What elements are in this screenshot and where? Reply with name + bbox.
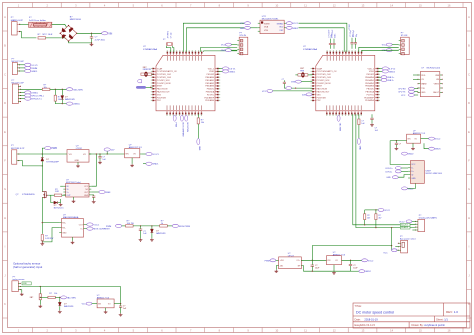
capacitor C6 below U7 right (370, 114, 379, 132)
wire U5 to ST-LIN1 pin (201, 48, 238, 52)
net flag below R9 (197, 139, 200, 145)
svg-text:PC1/TIM1/UART1_CK: PC1/TIM1/UART1_CK (157, 70, 178, 73)
svg-text:PD3/AIN4: PD3/AIN4 (205, 99, 215, 102)
capacitor C10 tacho out (119, 304, 127, 314)
junction motor pin2 (42, 165, 43, 166)
wire NTC to bridge ac2 (46, 38, 67, 39)
svg-text:PE5/SPI: PE5/SPI (366, 74, 374, 76)
svg-text:RS-: RS- (62, 228, 66, 230)
svg-text:E: E (4, 130, 6, 134)
svg-text:VCC: VCC (221, 45, 226, 47)
svg-text:GND: GND (240, 28, 245, 30)
svg-text:C: C (468, 72, 470, 76)
svg-text:VSS1: VSS1 (369, 71, 375, 73)
svg-text:REV: 1.0: REV: 1.0 (446, 310, 458, 314)
junction aux wire (391, 245, 392, 246)
svg-text:GND: GND (411, 178, 416, 180)
ground AMS aux (333, 265, 335, 272)
svg-text:BAV21WS: BAV21WS (156, 232, 166, 235)
wire pullups to VCC flag (376, 209, 378, 211)
ground filter cap (139, 238, 143, 241)
svg-text:VL: VL (67, 189, 69, 191)
svg-text:VDD_1: VDD_1 (208, 68, 215, 70)
svg-text:GND2: GND2 (408, 154, 415, 156)
svg-text:C?: C? (282, 79, 284, 81)
driver bypass cap C3 (91, 195, 95, 200)
wire U5 to ST-LIN1 pin2 (204, 51, 238, 52)
svg-text:PB2/AIN2: PB2/AIN2 (365, 82, 375, 85)
svg-text:10k: 10k (201, 122, 204, 124)
port flag at U5 left (137, 80, 141, 83)
junction at C1 bottom (91, 42, 92, 43)
wire display gnd pin (412, 229, 415, 231)
svg-text:PC2/TIM1_CH2: PC2/TIM1_CH2 (157, 74, 172, 76)
title block (353, 303, 470, 328)
wire bridge plus to VIN (77, 32, 102, 34)
ground AMS tacho (105, 308, 107, 311)
mcu U5 left and right pins (151, 67, 220, 102)
svg-text:FER: FER (300, 70, 304, 72)
svg-text:SWIM: SWIM (31, 68, 37, 70)
net flag MOS PWM (172, 224, 178, 227)
svg-text:PB5/SDA: PB5/SDA (366, 91, 375, 94)
net flag VCC aux (362, 259, 368, 262)
junction aux out cap (350, 260, 351, 261)
net flag VCC2 boot right (286, 22, 292, 25)
svg-text:PC5/SPI_SCK: PC5/SPI_SCK (317, 80, 331, 82)
capacitor C5 at U7 left (282, 79, 286, 88)
svg-text:ST-LIN: ST-LIN (239, 35, 246, 37)
svg-text:VCC: VCC (383, 252, 388, 254)
net flag GND main (146, 162, 152, 165)
wire AMS tacho out (114, 303, 121, 305)
net flags below U5 pin rows 2-3 (180, 115, 188, 137)
junction driver 12V feed (96, 153, 97, 154)
svg-text:10k: 10k (54, 293, 57, 295)
clamp diode D5 BAV21WS (151, 226, 167, 239)
svg-text:TXD: TXD (421, 88, 425, 90)
net flag TAC-SEN input (67, 88, 73, 91)
svg-text:MICRO USB 5S.B: MICRO USB 5S.B (426, 173, 443, 175)
junction filter cap (140, 225, 141, 226)
net flag GND usb top (402, 152, 408, 155)
junction tacho signal (40, 297, 41, 298)
svg-text:MOS PWM: MOS PWM (186, 123, 188, 133)
svg-text:GND: GND (23, 283, 28, 285)
capacitor C9 aux out (349, 260, 359, 271)
svg-text:GND1: GND1 (229, 71, 236, 73)
svg-text:C: C (4, 72, 6, 76)
svg-text:GND: GND (359, 146, 361, 151)
mosfet Q1 STW80NF55 (16, 192, 49, 199)
svg-text:STM8AF52AA: STM8AF52AA (143, 48, 158, 51)
ground tacho cap (119, 313, 123, 316)
wire lin cs stub (413, 78, 418, 80)
resistor R8 1k (160, 221, 168, 227)
svg-text:PD0/TIM3: PD0/TIM3 (157, 97, 167, 99)
svg-text:USB D+: USB D+ (387, 77, 395, 79)
net flag GND control (67, 102, 73, 105)
svg-text:GND2: GND2 (292, 28, 299, 30)
svg-text:X?: X? (163, 39, 165, 41)
svg-text:VCC2: VCC2 (368, 260, 374, 262)
svg-text:VCAP: VCAP (157, 67, 163, 70)
junction sda tap (391, 227, 392, 228)
svg-text:Sheet: 1/1: Sheet: 1/1 (436, 317, 448, 321)
net flag at U7 left row (286, 87, 292, 90)
regulator U11 AMS1117-3.3 aux (327, 252, 346, 265)
svg-text:VCC: VCC (82, 304, 87, 306)
svg-text:4k7: 4k7 (378, 218, 381, 220)
net flag USB D+ at U7 right (378, 76, 381, 78)
net flag VCC pullups (378, 208, 384, 211)
svg-text:TAC-SEN: TAC-SEN (73, 88, 83, 91)
svg-text:10R: 10R (55, 191, 59, 193)
svg-text:WAKE: WAKE (421, 83, 427, 86)
wire R7 to R8 (133, 225, 160, 227)
svg-text:0.1R 3W: 0.1R 3W (45, 238, 53, 240)
ferrite bead FB2 at U7 left (295, 68, 312, 77)
decoupling caps above U7 (328, 29, 336, 49)
svg-text:3.3 V1: 3.3 V1 (31, 65, 38, 67)
svg-text:GND: GND (62, 233, 67, 235)
svg-text:E: E (468, 130, 470, 134)
wire VIN rail down to mosfet (41, 154, 43, 157)
connector P2 MCU SWIM (12, 58, 25, 74)
svg-text:NRST: NRST (157, 86, 163, 88)
svg-text:MOS CURRENT: MOS CURRENT (93, 229, 110, 231)
svg-text:A: A (468, 15, 470, 19)
svg-text:PB1/AIN1: PB1/AIN1 (365, 79, 375, 82)
wire I2C SDA from U7 down (356, 114, 401, 227)
gate zener D4 BZT52C15 (51, 195, 65, 209)
svg-text:FB?: FB? (30, 297, 33, 299)
svg-text:BZT52C15: BZT52C15 (54, 208, 65, 210)
svg-text:PWR: PWR (51, 147, 57, 150)
wire sense rs- (42, 228, 59, 242)
mcu U7 top and bottom pins (326, 50, 362, 116)
net flag PWR (45, 147, 51, 150)
wire power select vertical (392, 228, 399, 251)
junction tacho divider (55, 89, 56, 90)
wire mains pin2 to NTC (20, 32, 37, 38)
svg-text:K: K (4, 302, 6, 306)
svg-text:VCC: VCC (262, 91, 267, 93)
regulator U1 7812 wire from rail (42, 153, 64, 155)
wire U7 to ST-LIN2 (362, 50, 399, 52)
svg-text:PC2/TIM1_CH2: PC2/TIM1_CH2 (317, 74, 332, 76)
wire boot left gnd stub (250, 27, 257, 29)
mcu U5 top and bottom pins (166, 50, 202, 116)
svg-text:4k7: 4k7 (367, 218, 370, 220)
jumper block U6 MCU-BOOT-SEL (258, 16, 287, 34)
connector P9 tacho sensor (12, 277, 25, 292)
svg-text:BAV21WS: BAV21WS (64, 305, 74, 308)
svg-text:PC3/TIM1_CH3: PC3/TIM1_CH3 (157, 77, 172, 79)
wire U5 swim to boot header row A (183, 23, 244, 52)
svg-text:GND2: GND2 (389, 71, 396, 73)
ground below C1 (90, 43, 94, 46)
junction rs+ (42, 222, 43, 223)
net flag row pin3 (20, 91, 24, 93)
svg-text:X? 8MHz: X? 8MHz (167, 31, 169, 38)
svg-text:VO: VO (83, 154, 86, 156)
ground opamp (275, 266, 277, 270)
wire 7812 gnd (77, 162, 79, 165)
svg-text:A: A (4, 15, 6, 19)
junction motor pin1 (42, 153, 43, 154)
svg-text:MOS CURRENT: MOS CURRENT (182, 123, 184, 138)
net flag VBUS usb (429, 147, 435, 150)
regulator U9 AMS1117-3.3 usb (407, 130, 426, 143)
svg-text:GND: GND (421, 92, 426, 94)
mcu U7 left and right pins (311, 67, 380, 102)
bus label at U5 left (136, 86, 152, 88)
wire PWR to rail (42, 148, 44, 154)
svg-text:3.3 V1: 3.3 V1 (152, 154, 159, 156)
wire swim pin3 (19, 70, 24, 72)
svg-text:PC6/SPI_MOSI: PC6/SPI_MOSI (317, 83, 331, 85)
svg-text:PA1/OSCIN: PA1/OSCIN (317, 88, 328, 91)
wire tacho pin3 elbow (20, 290, 22, 293)
svg-text:GND: GND (84, 195, 89, 197)
wire boot to U7 swim (299, 23, 347, 52)
wire fuse to bridge ac1 (52, 24, 67, 27)
svg-text:VIN: VIN (108, 32, 112, 35)
svg-text:PWM: PWM (174, 123, 176, 128)
svg-text:B: B (468, 44, 470, 48)
junction shunt bottom (42, 241, 43, 242)
crystal X2 and caps above U7 (349, 24, 358, 49)
svg-text:VCC2: VCC2 (435, 139, 441, 141)
svg-text:PA2/OSCOUT: PA2/OSCOUT (157, 91, 171, 94)
ground zener (59, 203, 63, 206)
svg-text:USB D-: USB D- (387, 80, 394, 82)
net flag VCC usb out (429, 137, 435, 140)
svg-text:VCC2: VCC2 (292, 23, 298, 25)
wire R8 to MOS PWM flag (167, 225, 172, 227)
wire mosfet source down (41, 197, 43, 234)
svg-text:H: H (4, 216, 6, 220)
svg-text:CON D-: CON D- (385, 171, 392, 173)
svg-text:FERRITE: FERRITE (143, 69, 152, 71)
svg-text:3.3 V1: 3.3 V1 (229, 69, 236, 71)
svg-text:MCP2021-500: MCP2021-500 (427, 67, 441, 69)
svg-text:PD7/TLI: PD7/TLI (207, 94, 215, 96)
thermistor R2 NTC 10-R (38, 34, 53, 39)
junction tacho out (120, 303, 121, 304)
svg-text:VBUS: VBUS (435, 149, 441, 151)
green label tacho pin1 (22, 282, 31, 285)
svg-text:VCC1: VCC1 (93, 225, 100, 227)
svg-text:PC5/SPI_SCK: PC5/SPI_SCK (157, 80, 171, 82)
svg-text:EasyEDA V4.11.5: EasyEDA V4.11.5 (355, 323, 376, 327)
regulator U2 AMS1117-3.3 main (125, 145, 143, 158)
svg-text:D: D (4, 101, 6, 105)
svg-text:B: B (4, 44, 6, 48)
net flag 5V tacho in (86, 302, 92, 305)
wire tacho 3.3V long (20, 286, 120, 288)
svg-text:TAC SEN: TAC SEN (67, 296, 76, 299)
wire U5 nrst to boot header row B (186, 28, 244, 52)
green label SCL/TX (400, 223, 410, 226)
svg-text:G: G (468, 187, 470, 191)
net flag below R10 (357, 138, 360, 144)
wire AMS1 out (142, 153, 146, 155)
svg-text:-IN1: -IN1 (280, 266, 284, 268)
ground tacho pullup (38, 305, 42, 308)
regulator U1 7812 (65, 146, 92, 163)
fuse F1 5x20 Fuse holder (29, 17, 52, 27)
svg-text:(hall or generator) input: (hall or generator) input (13, 265, 42, 269)
ground tacho connector (20, 293, 24, 296)
svg-text:BTN (S.T.): BTN (S.T.) (31, 99, 41, 101)
connector P1 MAINS 8-2P (11, 17, 24, 35)
svg-text:GND: GND (386, 177, 391, 179)
wire driver in (60, 185, 63, 187)
ground AMS1 (130, 164, 134, 167)
ground shunt (40, 242, 44, 245)
ground tacho diode (58, 310, 62, 313)
svg-text:PD3/AIN4: PD3/AIN4 (365, 99, 375, 102)
svg-text:GND1: GND1 (31, 71, 38, 73)
wire sense rs+ (42, 222, 59, 224)
junction 12V flag (107, 153, 108, 154)
net flag 3.3V swim (25, 63, 31, 66)
svg-text:GND1: GND1 (152, 164, 159, 166)
svg-text:C? 12p: C? 12p (171, 32, 173, 38)
svg-text:PD7/TLI: PD7/TLI (367, 94, 375, 96)
net flag VCC sense (85, 224, 87, 226)
junction gnd rail (312, 271, 313, 272)
aux ground rail (304, 266, 351, 272)
net flag VIN (102, 32, 108, 35)
connector P7 Display I2C/UART (415, 215, 437, 232)
net flag driver IREF (91, 191, 99, 193)
svg-text:VCC: VCC (240, 23, 245, 25)
junction at C1 top (91, 33, 92, 34)
svg-text:NTC 10-R: NTC 10-R (43, 34, 53, 36)
svg-text:FAULT: FAULT (433, 91, 440, 94)
wire R14 to flag (55, 296, 60, 298)
net flag TAC SEN out (61, 296, 67, 299)
resistor R3 10k tacho pullup (42, 85, 50, 91)
svg-text:BAV21WS: BAV21WS (65, 98, 75, 101)
svg-text:PC1/TIM1/UART1_CK: PC1/TIM1/UART1_CK (317, 70, 338, 73)
ground sense (72, 237, 74, 241)
junction usb cap (396, 140, 397, 141)
connector P6 ST-LIN (399, 33, 410, 55)
mcu U5 STM8AF52AA body (156, 55, 215, 111)
resistor R9 below U5 (197, 114, 204, 138)
series resistor R14 tacho (48, 293, 57, 299)
svg-text:12V: 12V (111, 150, 115, 152)
svg-text:5x20 Fuse holder: 5x20 Fuse holder (29, 19, 46, 22)
clamp diode D6 BAV21WS tacho (58, 297, 74, 310)
svg-text:NRST: NRST (317, 86, 323, 88)
junction opamp out (312, 260, 313, 261)
wire pwm to R7 (122, 225, 126, 227)
net flag GND at U5 right (218, 70, 222, 72)
wire usb 5V to AMS (390, 140, 407, 142)
wire motor pin2 elbow (19, 161, 43, 166)
svg-text:SDA/RX: SDA/RX (401, 226, 409, 229)
svg-text:12p: 12p (356, 34, 358, 37)
svg-text:PD0/TIM3: PD0/TIM3 (317, 97, 327, 99)
svg-text:PB4/I2C: PB4/I2C (207, 89, 215, 91)
svg-text:GND2: GND2 (408, 188, 415, 190)
shunt resistor R6 0.1R (41, 235, 53, 243)
ground driver (73, 197, 75, 200)
svg-text:PA1/OSCIN: PA1/OSCIN (157, 88, 168, 91)
svg-text:PB1/AIN1: PB1/AIN1 (205, 79, 215, 82)
resistor R7 100 1W (126, 221, 134, 227)
filter capacitor C4 (139, 226, 148, 239)
net flag VCC stlin1 (226, 43, 232, 46)
flyback diode D3 STTH8L06 (41, 158, 60, 164)
wire U7 to ST-LIN2 b (359, 47, 399, 52)
ground 7812 (76, 165, 80, 168)
svg-text:X? 8M: X? 8M (349, 24, 351, 30)
crystal X1 8MHz for U5 (163, 31, 174, 52)
wire tacho signal row (40, 296, 48, 298)
svg-text:VREG: VREG (434, 84, 440, 86)
svg-text:PD4/BEEP: PD4/BEEP (204, 97, 214, 99)
net flag 3.3V main (146, 152, 152, 155)
net flag GND2 boot right (286, 26, 292, 29)
svg-text:Date: 2018-01-19: Date: 2018-01-19 (355, 317, 379, 321)
net flag GND stlin2 (386, 49, 392, 52)
svg-text:PB5/SDA: PB5/SDA (206, 91, 215, 94)
wire tacho 3.3V drop (120, 287, 122, 304)
wire mains pin1 to fuse (20, 23, 29, 25)
net flag below U7 (337, 115, 341, 131)
svg-text:PB3/AIN3: PB3/AIN3 (365, 85, 375, 88)
net flag row pin4 (20, 95, 24, 97)
svg-text:VDA: VDA (264, 26, 269, 29)
net flag on power select wire (392, 249, 397, 252)
svg-text:ST-LIN: ST-LIN (401, 35, 408, 37)
ground C2 (98, 161, 102, 164)
I2C pullup resistors R11 R12 (364, 209, 382, 228)
net flag GND usb shell (402, 187, 408, 190)
op-amp U10 OP07 (276, 253, 303, 269)
wire AMS aux out (342, 259, 362, 261)
svg-text:Drawn By: curyfinee & puzrin: Drawn By: curyfinee & puzrin (412, 323, 446, 327)
net flag SWIM (25, 66, 31, 69)
net flag GND at U7 right (378, 70, 382, 72)
svg-text:(GND): (GND) (73, 104, 80, 106)
connector P5 ST-LIN (237, 33, 248, 55)
ground AMS usb (412, 143, 414, 147)
wire pwm to opamp (276, 259, 279, 261)
svg-text:100n: 100n (334, 34, 336, 38)
svg-text:SWIM2: SWIM2 (277, 23, 284, 25)
motor connector P4 (11, 145, 25, 164)
svg-text:BTN: BTN (291, 82, 296, 84)
svg-text:GND: GND (221, 50, 226, 52)
svg-text:GND: GND (198, 146, 200, 151)
wire lin rxd stub (413, 74, 418, 76)
net flag 3.3V at U5 right (218, 68, 222, 70)
green label SDA/RX (400, 226, 410, 229)
svg-text:CPU RX: CPU RX (398, 89, 406, 91)
wire driver vcc right (91, 154, 96, 186)
junction clamp diode (151, 225, 152, 226)
svg-text:VCC: VCC (382, 45, 387, 47)
wire usb vbus down to connector (390, 141, 408, 165)
wire bridge minus to C1 bottom (69, 41, 92, 43)
